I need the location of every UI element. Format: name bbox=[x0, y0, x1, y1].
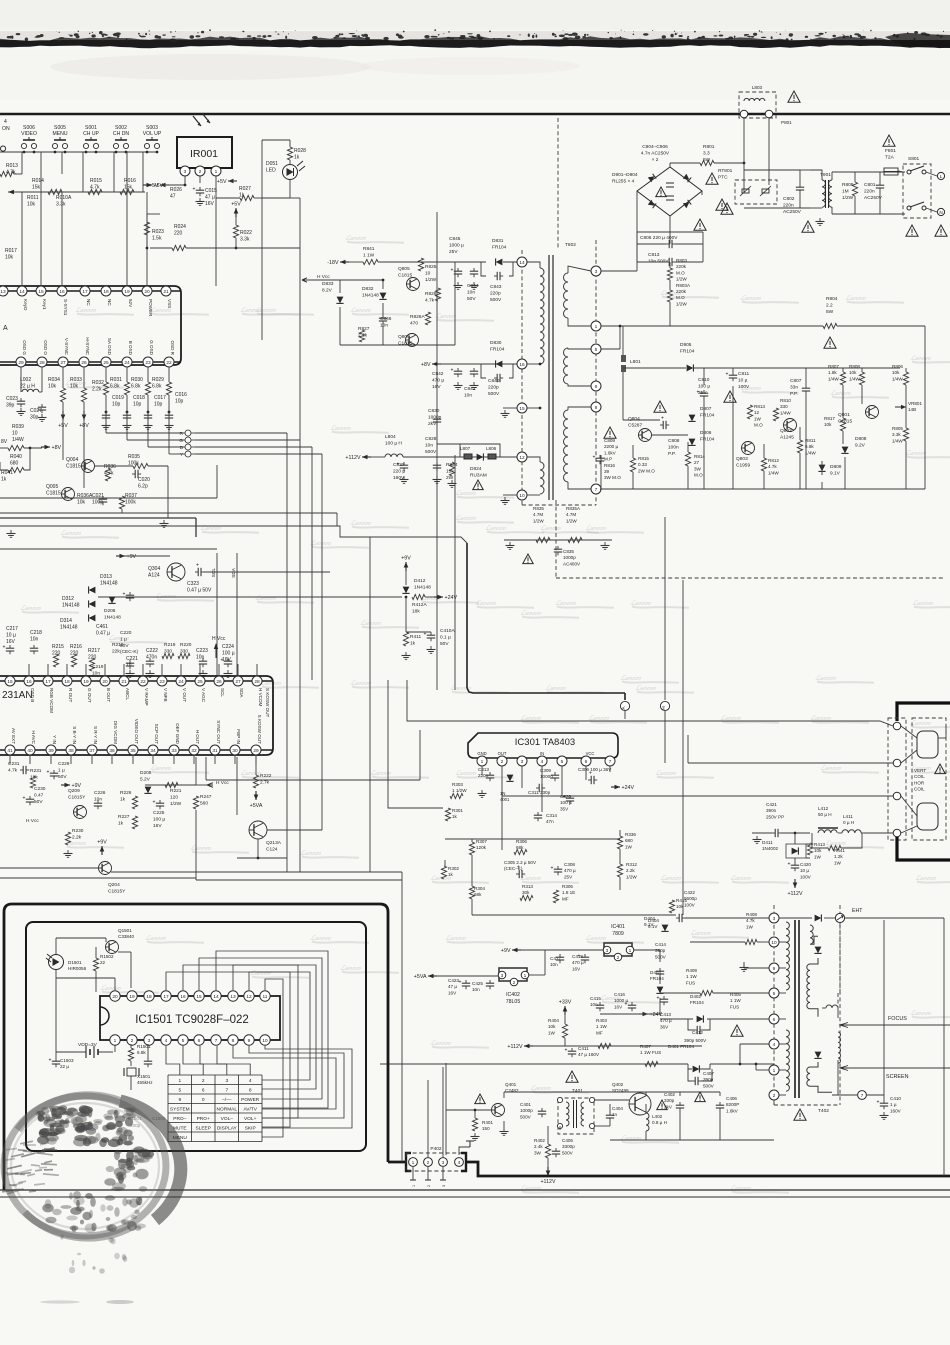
svg-text:R313: R313 bbox=[522, 884, 533, 889]
wire bbox=[504, 539, 612, 541]
svg-text:C406: C406 bbox=[726, 1096, 737, 1101]
wire bbox=[703, 368, 705, 385]
svg-text:470 µ: 470 µ bbox=[564, 868, 576, 873]
IC002 pin 30 bbox=[230, 745, 240, 755]
svg-text:0.47 µ: 0.47 µ bbox=[96, 631, 110, 637]
resistor bbox=[8, 467, 24, 472]
node -18V bbox=[340, 261, 349, 263]
wire bbox=[142, 152, 144, 192]
svg-text:1 µ: 1 µ bbox=[120, 636, 127, 642]
svg-text:+: + bbox=[196, 563, 199, 569]
capacitor bbox=[694, 1029, 697, 1031]
resistor bbox=[797, 440, 802, 453]
wire bbox=[822, 1007, 826, 1009]
warning triangle bbox=[731, 1025, 743, 1036]
wire keypad col bbox=[217, 1046, 250, 1075]
IC1501 pin 10 bbox=[260, 1035, 270, 1045]
wire yoke feed 1 bbox=[407, 680, 893, 726]
resistor bbox=[568, 537, 582, 542]
IC002 pin 38 bbox=[66, 745, 76, 755]
svg-text:C420: C420 bbox=[800, 862, 811, 867]
svg-text:160V: 160V bbox=[890, 1108, 902, 1113]
svg-text:POWER: POWER bbox=[241, 1097, 260, 1103]
svg-text:3W M.O: 3W M.O bbox=[604, 475, 621, 480]
wire jungle pin stubs bbox=[28, 664, 30, 676]
svg-text:1/4W: 1/4W bbox=[892, 438, 903, 443]
capacitor bbox=[703, 390, 705, 393]
IC1501 pin 20 bbox=[110, 991, 120, 1001]
svg-text:COIL: COIL bbox=[914, 787, 925, 792]
IC301 pin 4 bbox=[537, 756, 547, 766]
wire bbox=[703, 1019, 710, 1030]
wire bbox=[670, 162, 700, 164]
capacitor bbox=[149, 658, 151, 661]
keypad matrix table bbox=[168, 1075, 262, 1142]
svg-text:100 µ: 100 µ bbox=[153, 816, 165, 822]
wire bbox=[126, 412, 128, 440]
wire bbox=[114, 1045, 116, 1052]
IC1501 pin 4 bbox=[161, 1035, 171, 1045]
svg-text:+: + bbox=[221, 658, 224, 664]
wire bbox=[405, 597, 407, 632]
wire bbox=[148, 446, 185, 448]
capacitor bbox=[489, 980, 491, 983]
ground bbox=[509, 542, 511, 546]
svg-text:+: + bbox=[459, 980, 462, 986]
svg-text:R336: R336 bbox=[625, 832, 636, 837]
capacitor bbox=[557, 866, 559, 869]
svg-text:3: 3 bbox=[521, 759, 524, 765]
transistor bbox=[406, 334, 419, 347]
svg-text:C305 2.2 µ 50V: C305 2.2 µ 50V bbox=[504, 860, 537, 865]
svg-text:R413: R413 bbox=[814, 842, 825, 847]
svg-text:4.7M: 4.7M bbox=[533, 512, 543, 517]
svg-text:+: + bbox=[726, 372, 729, 378]
node +5V bbox=[62, 411, 64, 420]
svg-text:V RAMP: V RAMP bbox=[144, 688, 149, 706]
wire bbox=[879, 191, 881, 214]
svg-text:+8V: +8V bbox=[421, 362, 431, 368]
capacitor bbox=[659, 968, 661, 971]
wire arrow bbox=[214, 643, 218, 649]
svg-text:8V: 8V bbox=[1, 439, 8, 445]
svg-text:220k: 220k bbox=[676, 264, 687, 269]
svg-text:0.47 µ 50V: 0.47 µ 50V bbox=[187, 588, 212, 594]
svg-text:10: 10 bbox=[262, 1038, 268, 1044]
ground bbox=[504, 410, 506, 414]
stamp top arc bbox=[18, 1095, 120, 1130]
svg-text:18: 18 bbox=[146, 994, 152, 1000]
IC002 pin 32 bbox=[189, 745, 199, 755]
svg-text:R OUT: R OUT bbox=[68, 688, 73, 702]
wire bbox=[688, 1064, 692, 1069]
svg-text:L803: L803 bbox=[752, 85, 763, 90]
svg-text:2: 2 bbox=[773, 1093, 776, 1099]
svg-text:68k: 68k bbox=[474, 892, 482, 897]
coil bbox=[842, 830, 861, 833]
svg-text:R028: R028 bbox=[294, 148, 306, 154]
svg-text:+9V: +9V bbox=[97, 840, 107, 846]
wire bus bbox=[0, 526, 467, 543]
transistor bbox=[99, 862, 112, 875]
svg-text:8200P: 8200P bbox=[726, 1102, 739, 1107]
IC001 pin 13 bbox=[0, 286, 8, 296]
ground bbox=[473, 382, 475, 386]
wire bbox=[113, 152, 115, 192]
ground bbox=[227, 670, 229, 674]
svg-text:R813: R813 bbox=[754, 404, 765, 409]
svg-text:1N4148: 1N4148 bbox=[414, 584, 431, 590]
svg-text:15: 15 bbox=[519, 406, 525, 412]
svg-text:1/4W: 1/4W bbox=[849, 376, 860, 381]
svg-text:5600p: 5600p bbox=[684, 896, 697, 901]
svg-text:5: 5 bbox=[561, 759, 564, 765]
wire arrow bbox=[302, 278, 312, 282]
wire bbox=[901, 796, 917, 816]
svg-text:C414: C414 bbox=[655, 942, 666, 947]
svg-text:R412A: R412A bbox=[412, 602, 427, 608]
diode bbox=[496, 361, 503, 368]
svg-text:R835A: R835A bbox=[566, 506, 581, 511]
wire keypad col bbox=[166, 1046, 180, 1075]
svg-text:A1245: A1245 bbox=[780, 434, 794, 440]
svg-text:R306: R306 bbox=[516, 839, 527, 844]
svg-text:+8V: +8V bbox=[52, 445, 62, 451]
resistor bbox=[119, 496, 124, 509]
svg-text:C019: C019 bbox=[112, 395, 124, 401]
wire bbox=[261, 198, 263, 340]
wire bbox=[199, 176, 201, 183]
stamp bottom arc bbox=[25, 1212, 130, 1238]
svg-text:+: + bbox=[788, 862, 791, 868]
wire bbox=[743, 163, 745, 192]
svg-text:0: 0 bbox=[202, 1097, 205, 1103]
capacitor bbox=[676, 917, 679, 919]
transistor bbox=[407, 278, 420, 291]
svg-text:OSD R: OSD R bbox=[170, 340, 175, 355]
wire matrix route bbox=[166, 972, 310, 1080]
T401 terminal bbox=[589, 1123, 594, 1128]
svg-text:R030: R030 bbox=[131, 377, 143, 383]
svg-text:1W: 1W bbox=[814, 854, 822, 859]
wire bbox=[55, 1052, 57, 1058]
resistor bbox=[93, 958, 98, 971]
wire bbox=[568, 407, 591, 410]
svg-text:7809: 7809 bbox=[612, 931, 624, 937]
wire bottom bus bbox=[600, 488, 925, 490]
wire bbox=[529, 974, 545, 976]
svg-text:C222: C222 bbox=[146, 648, 158, 654]
warning triangle bbox=[604, 427, 616, 438]
wire bbox=[707, 1018, 769, 1020]
resistor bbox=[88, 189, 102, 194]
svg-text:L807: L807 bbox=[460, 446, 471, 451]
resistor bbox=[667, 290, 672, 302]
terminal R bbox=[185, 430, 191, 436]
wire bbox=[289, 140, 291, 147]
wire bbox=[645, 1131, 647, 1140]
wire bbox=[637, 231, 703, 233]
svg-text:PRO+: PRO+ bbox=[197, 1116, 210, 1122]
wire bbox=[147, 213, 160, 215]
wire bbox=[547, 1126, 549, 1144]
svg-text:1 1W: 1 1W bbox=[596, 1024, 607, 1029]
svg-text:28: 28 bbox=[39, 360, 45, 366]
svg-text:10p: 10p bbox=[154, 402, 163, 408]
bottom rule bbox=[0, 1189, 950, 1191]
IC001 pin 14 bbox=[17, 286, 27, 296]
svg-text:C220: C220 bbox=[120, 630, 132, 636]
svg-text:R807: R807 bbox=[828, 364, 839, 369]
wire bbox=[905, 385, 907, 428]
svg-text:PTC: PTC bbox=[718, 174, 728, 180]
svg-text:16V: 16V bbox=[614, 1004, 623, 1009]
resistor bbox=[840, 372, 845, 385]
svg-text:390n: 390n bbox=[766, 808, 777, 813]
svg-text:R215: R215 bbox=[52, 644, 64, 650]
wire bbox=[56, 937, 106, 939]
svg-text:G OSD: G OSD bbox=[149, 340, 154, 355]
svg-text:C904–C906: C904–C906 bbox=[642, 144, 668, 150]
svg-text:100V: 100V bbox=[684, 902, 696, 907]
diode bbox=[697, 1016, 704, 1023]
svg-text:MF: MF bbox=[562, 896, 569, 901]
svg-text:1/2W: 1/2W bbox=[533, 518, 544, 523]
svg-text:D830: D830 bbox=[490, 340, 502, 346]
wire bbox=[740, 1043, 769, 1045]
svg-text:35: 35 bbox=[130, 748, 136, 754]
wire bbox=[710, 1063, 774, 1065]
capacitor bbox=[457, 268, 459, 271]
wire bbox=[752, 832, 772, 834]
wire bbox=[779, 1094, 786, 1096]
IC002 pin 24 bbox=[176, 676, 186, 686]
svg-text:1: 1 bbox=[412, 1160, 415, 1166]
wire bbox=[286, 433, 288, 872]
ground bbox=[67, 850, 69, 854]
IC micom (top-left, partial) bbox=[0, 286, 181, 365]
resistor bbox=[162, 653, 174, 658]
wire bbox=[0, 447, 8, 449]
transformer T802 secondary winding 2 bbox=[540, 462, 544, 494]
svg-text:M.O: M.O bbox=[694, 473, 703, 478]
svg-text:9: 9 bbox=[773, 966, 776, 972]
svg-text:R307: R307 bbox=[476, 839, 487, 844]
svg-text:C415: C415 bbox=[590, 996, 601, 1001]
svg-text:H-SYNC: H-SYNC bbox=[85, 337, 90, 355]
wire bbox=[126, 367, 128, 382]
svg-text:6: 6 bbox=[773, 1017, 776, 1023]
svg-text:36V: 36V bbox=[660, 1024, 669, 1029]
svg-text:+5V: +5V bbox=[231, 202, 241, 208]
IC1501 notch bbox=[100, 1007, 109, 1025]
svg-text:C802: C802 bbox=[783, 196, 795, 202]
svg-text:2.2k: 2.2k bbox=[626, 868, 635, 873]
resistor bbox=[8, 445, 24, 450]
T402 primary winding bbox=[786, 922, 789, 990]
IC001 pin 29 bbox=[16, 357, 26, 367]
svg-text:T402: T402 bbox=[818, 1108, 829, 1114]
svg-text:SKIP: SKIP bbox=[245, 1126, 256, 1132]
svg-text:R404: R404 bbox=[548, 1018, 559, 1023]
svg-text:C407: C407 bbox=[703, 1071, 714, 1076]
IC1501 pin 11 bbox=[260, 991, 270, 1001]
wire bbox=[121, 509, 123, 513]
T402 pin 9 bbox=[769, 963, 779, 973]
resistor bbox=[132, 796, 137, 809]
wire bbox=[651, 434, 688, 436]
capacitor bbox=[599, 455, 601, 458]
IC002 pin 26 bbox=[214, 676, 224, 686]
svg-text:RL255 × 4: RL255 × 4 bbox=[612, 178, 635, 184]
wire bbox=[687, 466, 689, 489]
ground bbox=[403, 476, 405, 480]
capacitor bbox=[195, 571, 198, 573]
IC002 pin 41 bbox=[5, 745, 15, 755]
capacitor bbox=[569, 795, 571, 798]
svg-text:220p: 220p bbox=[488, 384, 499, 390]
svg-text:C1815: C1815 bbox=[398, 272, 412, 278]
IC1501 pin 15 bbox=[194, 991, 204, 1001]
wire terminal bbox=[425, 1179, 431, 1181]
T402 pin 7 bbox=[858, 1091, 867, 1100]
svg-text:C023: C023 bbox=[6, 396, 18, 402]
wire bbox=[40, 192, 42, 286]
wire bbox=[39, 391, 42, 393]
wire bbox=[779, 1069, 786, 1071]
wire matrix route bbox=[216, 951, 328, 1108]
transformer T802 primary winding 3 bbox=[564, 410, 569, 482]
svg-text:1 µ: 1 µ bbox=[890, 1102, 897, 1107]
diode bbox=[89, 587, 96, 594]
wire bbox=[20, 367, 22, 392]
wire bbox=[779, 992, 786, 994]
wire bbox=[659, 976, 661, 984]
svg-text:C410A: C410A bbox=[440, 628, 455, 634]
warning triangle bbox=[935, 225, 947, 236]
IC402 pin 3 bbox=[498, 971, 506, 979]
ground bbox=[436, 476, 438, 480]
stamp right arc dark bbox=[120, 1101, 181, 1220]
wire bbox=[521, 949, 603, 951]
svg-text:R217: R217 bbox=[88, 648, 100, 654]
capacitor bbox=[772, 832, 775, 834]
fuse F801 body bbox=[884, 168, 898, 175]
svg-text:M.O: M.O bbox=[754, 423, 763, 428]
wire bbox=[623, 367, 686, 369]
svg-text:C230: C230 bbox=[34, 786, 46, 792]
svg-text:500V: 500V bbox=[425, 449, 437, 455]
svg-text:C830: C830 bbox=[428, 408, 440, 414]
wire bbox=[924, 326, 926, 489]
svg-text:1/2W: 1/2W bbox=[676, 301, 687, 306]
warning triangle bbox=[654, 401, 666, 412]
svg-text:C217: C217 bbox=[6, 626, 18, 632]
wire bbox=[40, 152, 42, 192]
wire keypad col bbox=[200, 1046, 227, 1075]
svg-text:C813: C813 bbox=[648, 252, 660, 258]
wire bbox=[509, 262, 513, 276]
wire bbox=[289, 180, 291, 199]
T401 terminal bbox=[556, 1096, 563, 1103]
svg-text:SCL: SCL bbox=[220, 688, 225, 697]
capacitor bbox=[489, 772, 491, 775]
svg-text:500V: 500V bbox=[703, 1083, 715, 1088]
yoke connector pin 2 bbox=[893, 759, 901, 767]
wire bbox=[732, 368, 734, 372]
wire bbox=[216, 197, 240, 199]
IC001 pin 25 bbox=[101, 357, 111, 367]
svg-text:C404: C404 bbox=[612, 1106, 623, 1111]
svg-text:C1815Y: C1815Y bbox=[108, 888, 126, 894]
ground bbox=[149, 670, 151, 674]
svg-text:R247: R247 bbox=[200, 794, 212, 800]
wire bbox=[336, 513, 338, 526]
wire bbox=[378, 261, 455, 263]
IC002 pin 39 bbox=[46, 745, 56, 755]
svg-text:26: 26 bbox=[81, 360, 87, 366]
svg-text:H VCOM: H VCOM bbox=[258, 688, 263, 707]
warning triangle bbox=[724, 391, 736, 402]
svg-text:36: 36 bbox=[109, 748, 115, 754]
wire matrix route bbox=[183, 965, 316, 1089]
svg-text:16V: 16V bbox=[6, 639, 16, 645]
wire bbox=[255, 755, 257, 775]
svg-text:Q804: Q804 bbox=[628, 416, 640, 422]
wire bbox=[533, 1045, 702, 1047]
resistor bbox=[903, 372, 908, 385]
resistor bbox=[903, 428, 908, 441]
yoke connector pin 4 bbox=[893, 829, 901, 837]
wire bbox=[527, 407, 540, 409]
wire bbox=[195, 439, 300, 441]
svg-text:14: 14 bbox=[19, 289, 25, 295]
IC1501 pin 5 bbox=[178, 1035, 188, 1045]
svg-text:220k: 220k bbox=[676, 289, 687, 294]
IC002 pin 17 bbox=[43, 676, 53, 686]
IC1501 body bbox=[100, 996, 280, 1040]
capacitor bbox=[29, 796, 31, 799]
svg-text:16: 16 bbox=[26, 679, 32, 685]
svg-text:V-SYNC: V-SYNC bbox=[64, 338, 69, 356]
switch S801 pole 2 bbox=[907, 206, 911, 210]
svg-text:28: 28 bbox=[254, 679, 260, 685]
svg-text:34: 34 bbox=[150, 748, 156, 754]
wire bbox=[95, 953, 97, 958]
svg-text:NC: NC bbox=[86, 299, 91, 306]
photo transistor D1501 bbox=[49, 955, 64, 970]
wire bbox=[106, 432, 185, 434]
wire bbox=[805, 394, 807, 489]
capacitor bbox=[494, 275, 497, 277]
IC002 pin 37 bbox=[87, 745, 97, 755]
svg-text:11: 11 bbox=[263, 994, 268, 1000]
svg-text:19: 19 bbox=[129, 994, 135, 1000]
warning triangle bbox=[824, 337, 836, 348]
ground bbox=[604, 542, 606, 546]
wire bbox=[455, 261, 486, 263]
wire bbox=[821, 482, 823, 489]
ground bbox=[503, 1128, 505, 1132]
resistor bbox=[685, 452, 690, 466]
wire IC001 top pin rail bbox=[0, 290, 181, 292]
svg-text:C845: C845 bbox=[449, 236, 461, 242]
svg-text:30p: 30p bbox=[30, 415, 39, 421]
wire bbox=[637, 243, 666, 245]
IC002 pin 40 bbox=[25, 745, 35, 755]
IC1501 pin 3 bbox=[144, 1035, 154, 1045]
svg-text:+: + bbox=[23, 796, 26, 802]
